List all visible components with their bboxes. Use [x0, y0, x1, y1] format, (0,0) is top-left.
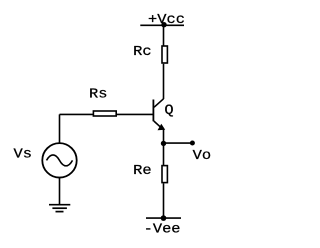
- svg-text:Re: Re: [133, 164, 151, 179]
- svg-text:Rs: Rs: [89, 87, 107, 102]
- svg-text:Vs: Vs: [14, 147, 32, 162]
- svg-text:Vo: Vo: [193, 149, 211, 164]
- svg-text:+Vcc: +Vcc: [148, 13, 185, 28]
- svg-text:Rc: Rc: [133, 45, 151, 60]
- svg-text:-Vee: -Vee: [144, 222, 181, 237]
- svg-text:Q: Q: [164, 103, 173, 118]
